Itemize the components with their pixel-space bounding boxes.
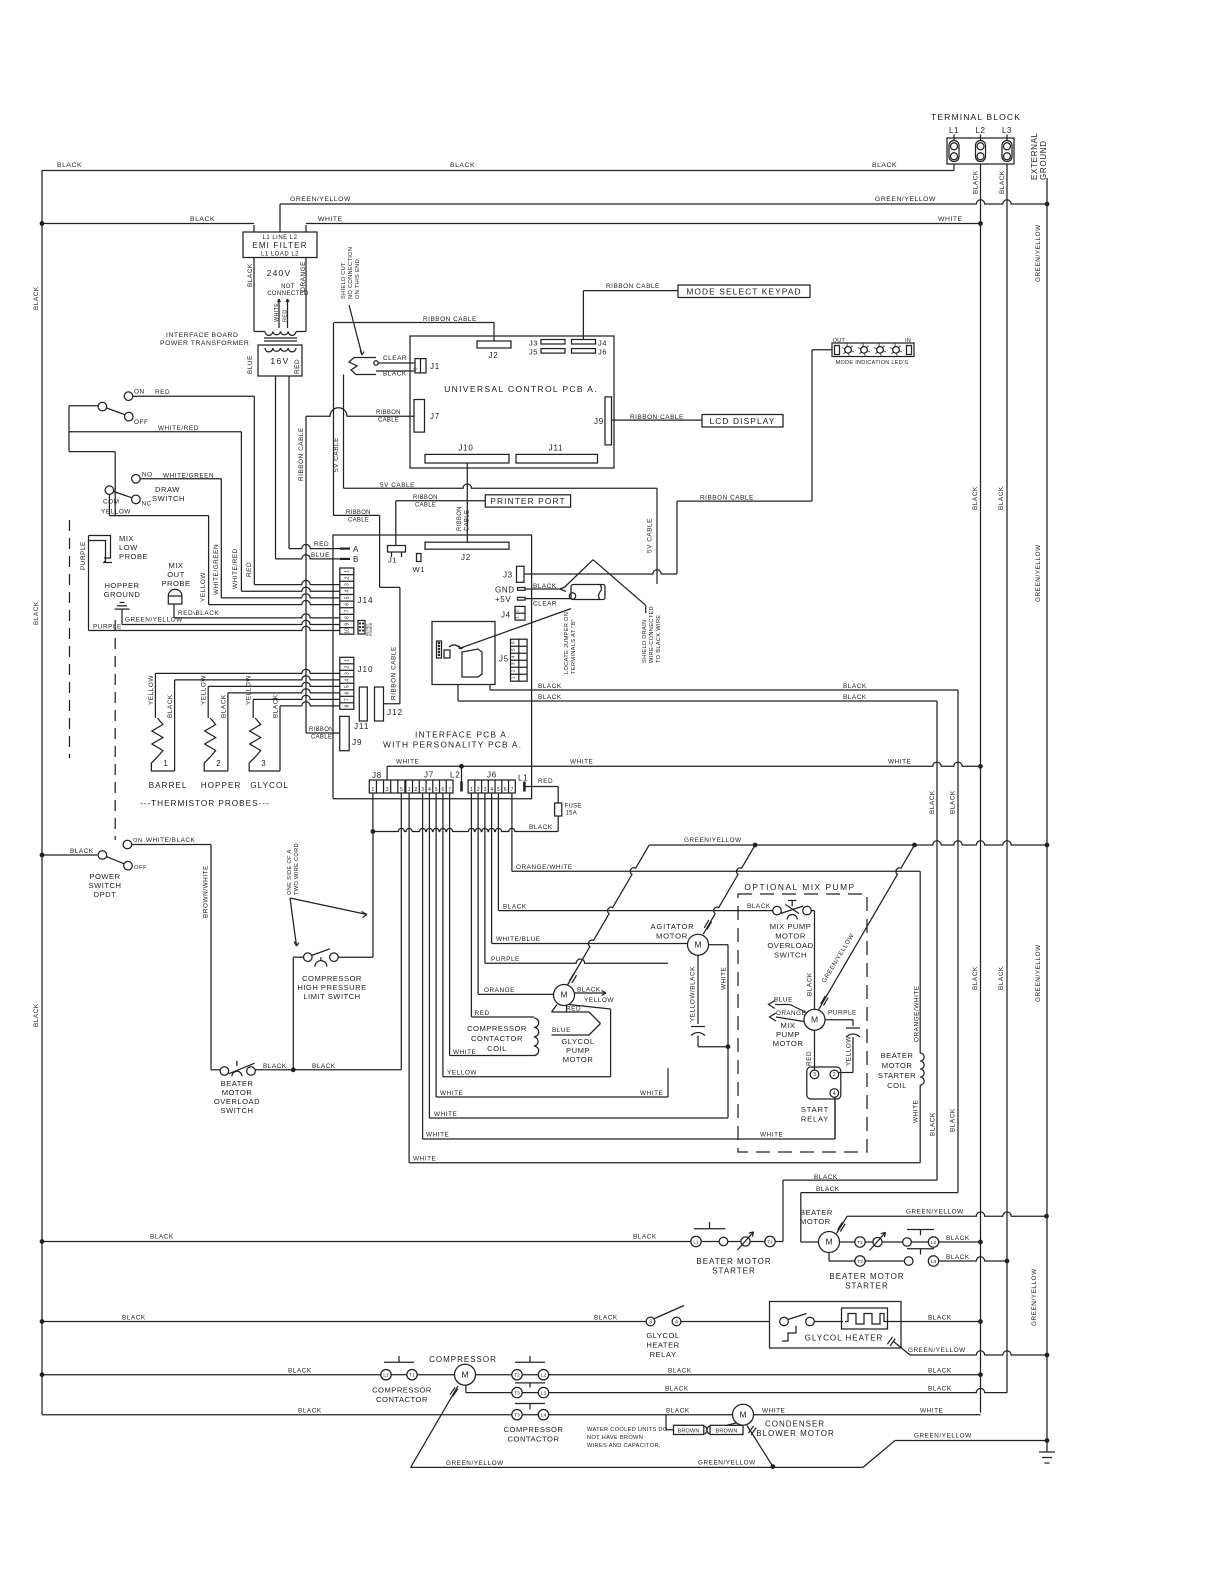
svg-text:GLYCOL: GLYCOL	[646, 1331, 679, 1340]
mode select keypad	[678, 285, 810, 298]
svg-text:PURPLE: PURPLE	[491, 956, 520, 963]
svg-text:2: 2	[511, 669, 516, 672]
svg-text:BLACK: BLACK	[594, 1315, 618, 1322]
svg-text:L1: L1	[518, 774, 529, 783]
jumper W1	[417, 554, 422, 562]
svg-text:J5: J5	[499, 655, 509, 664]
svg-text:RIBBON CABLE: RIBBON CABLE	[606, 283, 660, 290]
svg-text:T2: T2	[857, 1240, 863, 1246]
svg-text:5: 5	[344, 685, 350, 688]
svg-text:4: 4	[490, 787, 493, 793]
svg-text:MOTOR: MOTOR	[800, 1217, 831, 1226]
svg-text:INTERFACE BOARD: INTERFACE BOARD	[166, 332, 238, 339]
connector J9 universal	[605, 397, 612, 445]
svg-text:T3: T3	[514, 1390, 520, 1396]
svg-text:SWITCH: SWITCH	[89, 881, 122, 890]
svg-text:FUSE: FUSE	[565, 804, 582, 810]
svg-text:GREEN/YELLOW: GREEN/YELLOW	[1031, 1268, 1038, 1326]
svg-text:WHITE/BLACK: WHITE/BLACK	[146, 837, 196, 844]
svg-text:BLACK: BLACK	[929, 790, 936, 814]
svg-text:OPTIONAL MIX PUMP: OPTIONAL MIX PUMP	[744, 882, 855, 892]
svg-text:BLACK: BLACK	[450, 162, 475, 169]
svg-text:BLACK: BLACK	[288, 1367, 312, 1374]
svg-text:RIBBON CABLE: RIBBON CABLE	[298, 427, 305, 481]
svg-text:5: 5	[400, 787, 403, 793]
svg-text:CONNECTED: CONNECTED	[267, 291, 309, 297]
glycol pump motor	[554, 985, 575, 1006]
svg-text:GREEN/YELLOW: GREEN/YELLOW	[914, 1433, 972, 1440]
svg-text:3: 3	[261, 759, 266, 768]
svg-text:WHITE: WHITE	[434, 1111, 457, 1118]
svg-text:2: 2	[515, 609, 521, 612]
svg-text:J4: J4	[598, 339, 607, 348]
svg-text:GREEN/YELLOW: GREEN/YELLOW	[1035, 944, 1042, 1002]
svg-text:2: 2	[344, 576, 350, 579]
svg-text:J10: J10	[458, 444, 473, 453]
svg-text:4: 4	[428, 787, 431, 793]
svg-text:J7: J7	[424, 771, 434, 780]
svg-text:RELAY: RELAY	[650, 1350, 677, 1359]
LCD display	[702, 415, 783, 428]
svg-text:ORANGE: ORANGE	[776, 1010, 806, 1017]
svg-text:COM: COM	[103, 499, 120, 506]
svg-text:BLACK: BLACK	[998, 966, 1005, 990]
svg-text:WHITE/GREEN: WHITE/GREEN	[213, 544, 220, 595]
green/yellow diagonal to agitator motor	[703, 845, 755, 934]
svg-text:BLACK: BLACK	[928, 1315, 952, 1322]
svg-text:CONTACTOR: CONTACTOR	[376, 1395, 428, 1404]
svg-text:PURPLE: PURPLE	[828, 1010, 857, 1017]
svg-text:HOPPER: HOPPER	[201, 781, 242, 790]
svg-text:CLEAR: CLEAR	[533, 601, 557, 608]
svg-text:CABLE: CABLE	[348, 518, 369, 524]
svg-text:BLACK: BLACK	[190, 216, 215, 223]
svg-text:WHITE: WHITE	[640, 1090, 663, 1097]
svg-text:COMPRESSOR: COMPRESSOR	[372, 1386, 432, 1395]
svg-text:J3: J3	[503, 571, 513, 580]
svg-text:WIRES AND CAPACITOR.: WIRES AND CAPACITOR.	[587, 1443, 661, 1449]
svg-text:ORANGE/WHITE: ORANGE/WHITE	[516, 864, 573, 871]
fuse 15A	[555, 803, 562, 816]
svg-text:5: 5	[497, 787, 500, 793]
connector J10 interface	[340, 657, 354, 709]
svg-text:LOW: LOW	[119, 543, 138, 552]
svg-text:GREEN/YELLOW: GREEN/YELLOW	[684, 837, 742, 844]
shield tent	[565, 560, 593, 587]
svg-text:9: 9	[344, 623, 350, 626]
svg-text:T1: T1	[409, 1373, 415, 1379]
svg-text:INTERFACE PCB A.: INTERFACE PCB A.	[415, 730, 511, 740]
svg-text:WHITE: WHITE	[762, 1407, 785, 1414]
svg-text:GREEN/YELLOW: GREEN/YELLOW	[908, 1347, 966, 1354]
svg-text:J12: J12	[387, 708, 403, 717]
svg-text:MOTOR: MOTOR	[563, 1055, 594, 1064]
svg-text:WIRE-CONNECTED: WIRE-CONNECTED	[649, 606, 655, 663]
svg-text:MIX: MIX	[119, 534, 134, 543]
svg-text:J10: J10	[358, 665, 374, 674]
svg-text:NC: NC	[142, 501, 152, 508]
svg-text:BLACK: BLACK	[167, 694, 174, 718]
svg-text:AGITATOR: AGITATOR	[651, 922, 695, 931]
svg-text:GND: GND	[495, 586, 515, 595]
svg-text:STARTER: STARTER	[878, 1071, 916, 1080]
svg-text:PURPLE: PURPLE	[93, 624, 122, 631]
svg-text:RIBBON: RIBBON	[309, 727, 334, 733]
svg-text:RED: RED	[538, 778, 553, 785]
svg-text:M: M	[739, 1409, 746, 1419]
svg-text:BARREL: BARREL	[149, 781, 188, 790]
connector J9 interface	[340, 716, 350, 750]
svg-text:BLACK: BLACK	[747, 903, 771, 910]
svg-text:J11: J11	[354, 722, 369, 731]
svg-text:BLACK: BLACK	[872, 162, 897, 169]
svg-text:YELLOW: YELLOW	[447, 1070, 477, 1077]
connector J12 interface	[375, 687, 384, 721]
svg-text:M: M	[461, 1369, 468, 1379]
svg-text:WATER COOLED UNITS DO: WATER COOLED UNITS DO	[587, 1427, 668, 1433]
wire RED transformer secondary	[288, 376, 290, 549]
svg-text:5: 5	[344, 596, 350, 599]
compressor high pressure limit switch	[292, 957, 294, 1070]
svg-text:START: START	[801, 1105, 829, 1114]
svg-text:16V: 16V	[270, 356, 289, 366]
svg-text:+5V: +5V	[495, 595, 511, 604]
svg-text:GLYCOL: GLYCOL	[250, 781, 289, 790]
svg-text:GREEN/YELLOW: GREEN/YELLOW	[1035, 224, 1042, 282]
svg-text:J6: J6	[598, 348, 607, 357]
svg-text:SWITCH: SWITCH	[152, 494, 185, 503]
svg-text:WHITE: WHITE	[760, 1132, 783, 1139]
svg-text:YELLOW: YELLOW	[584, 997, 614, 1004]
svg-text:WHITE: WHITE	[413, 1156, 436, 1163]
svg-text:RED: RED	[294, 359, 301, 374]
svg-text:RED\BLACK: RED\BLACK	[178, 610, 219, 617]
svg-text:GREEN/YELLOW: GREEN/YELLOW	[698, 1459, 756, 1466]
svg-text:CABLE: CABLE	[415, 503, 436, 509]
svg-text:HOPPER: HOPPER	[104, 581, 139, 590]
svg-text:J9: J9	[594, 417, 604, 426]
svg-text:STARTER: STARTER	[845, 1282, 889, 1291]
svg-text:T1: T1	[767, 1239, 773, 1245]
svg-text:4: 4	[511, 655, 516, 658]
svg-text:GLYCOL: GLYCOL	[561, 1037, 594, 1046]
connector J11 interface	[359, 687, 367, 721]
svg-text:PURPLE: PURPLE	[80, 541, 87, 570]
svg-text:COMPRESSOR: COMPRESSOR	[302, 974, 362, 983]
svg-text:RIBBON CABLE: RIBBON CABLE	[700, 495, 754, 502]
svg-text:YELLOW: YELLOW	[101, 509, 131, 516]
svg-text:MOTOR: MOTOR	[656, 932, 688, 941]
svg-text:WHITE/RED: WHITE/RED	[232, 548, 239, 589]
svg-text:J14: J14	[358, 596, 374, 605]
svg-text:YELLOW: YELLOW	[201, 675, 208, 705]
svg-text:GREEN/YELLOW: GREEN/YELLOW	[906, 1209, 964, 1216]
svg-text:B: B	[353, 555, 358, 564]
svg-text:6: 6	[504, 787, 507, 793]
svg-text:6: 6	[344, 691, 350, 694]
svg-text:7: 7	[448, 787, 451, 793]
svg-text:1: 1	[371, 787, 374, 793]
svg-text:3: 3	[649, 1319, 652, 1325]
svg-text:10: 10	[344, 628, 350, 634]
svg-text:OFF: OFF	[134, 865, 147, 871]
svg-text:M: M	[825, 1237, 832, 1247]
svg-text:7: 7	[511, 787, 514, 793]
svg-text:BLACK: BLACK	[666, 1407, 690, 1414]
svg-text:BLACK: BLACK	[950, 1108, 957, 1132]
svg-text:BLACK: BLACK	[928, 1385, 952, 1392]
svg-text:RED: RED	[314, 541, 329, 548]
connector J4 universal	[572, 340, 596, 345]
svg-text:MODE INDICATION LED'S: MODE INDICATION LED'S	[836, 360, 909, 366]
svg-text:WHITE/BLUE: WHITE/BLUE	[496, 936, 541, 943]
svg-text:BEATER MOTOR: BEATER MOTOR	[829, 1272, 904, 1281]
svg-text:L1: L1	[383, 1373, 389, 1379]
svg-text:GREEN/YELLOW: GREEN/YELLOW	[446, 1460, 504, 1467]
svg-text:PROBE: PROBE	[161, 579, 190, 588]
wire WHITE start relay return	[834, 1097, 836, 1139]
svg-text:6: 6	[441, 787, 444, 793]
svg-text:J7: J7	[430, 412, 440, 421]
svg-text:BLUE: BLUE	[774, 997, 793, 1004]
svg-text:SHIELD DRAIN: SHIELD DRAIN	[642, 620, 648, 663]
svg-text:3: 3	[813, 1072, 816, 1078]
svg-text:RED: RED	[155, 389, 170, 396]
svg-text:15A: 15A	[566, 811, 578, 817]
svg-text:1: 1	[470, 787, 473, 793]
svg-text:LOCATE JUMPER ON: LOCATE JUMPER ON	[564, 612, 570, 674]
svg-text:ORANGE/WHITE: ORANGE/WHITE	[914, 985, 921, 1042]
svg-text:RED: RED	[246, 562, 253, 577]
svg-text:OVERLOAD: OVERLOAD	[214, 1097, 260, 1106]
svg-text:BLACK: BLACK	[843, 683, 867, 690]
svg-text:COMPRESSOR: COMPRESSOR	[429, 1355, 497, 1364]
svg-text:BLACK: BLACK	[946, 1235, 970, 1242]
svg-text:TERMINAL BLOCK: TERMINAL BLOCK	[931, 112, 1021, 122]
personality jumper box	[432, 622, 495, 685]
svg-text:T2: T2	[514, 1373, 520, 1379]
svg-text:BLACK: BLACK	[538, 694, 562, 701]
green/yellow diagonal beater motor	[837, 1216, 848, 1233]
shielded cable end at J1 universal	[349, 358, 376, 375]
svg-text:DRAW: DRAW	[155, 485, 180, 494]
wire RED J6p1 to compressor contactor coil	[470, 793, 472, 1017]
svg-text:BLACK: BLACK	[33, 286, 40, 310]
wire RED\BLACK mix out probe to J14 pin8	[173, 604, 175, 618]
svg-text:RIBBON: RIBBON	[376, 410, 401, 416]
svg-text:5: 5	[511, 648, 516, 651]
svg-text:RIBBON CABLE: RIBBON CABLE	[391, 646, 398, 700]
svg-text:COIL: COIL	[487, 1044, 507, 1053]
svg-text:J11: J11	[549, 444, 564, 453]
svg-text:J5: J5	[529, 348, 538, 357]
svg-text:YELLOW: YELLOW	[148, 675, 155, 705]
svg-text:BLACK: BLACK	[122, 1315, 146, 1322]
svg-text:BLACK: BLACK	[298, 1407, 322, 1414]
svg-text:J2: J2	[461, 553, 471, 562]
keyboard power aux connector	[358, 621, 365, 635]
svg-text:2: 2	[833, 1072, 836, 1078]
svg-text:RED: RED	[806, 1051, 813, 1066]
svg-text:WHITE: WHITE	[426, 1132, 449, 1139]
svg-text:BLACK: BLACK	[972, 966, 979, 990]
svg-text:BEATER MOTOR: BEATER MOTOR	[696, 1257, 771, 1266]
green/yellow glycol heater ground	[887, 1337, 892, 1344]
svg-text:J9: J9	[352, 738, 362, 747]
svg-text:L3: L3	[931, 1259, 937, 1265]
interface PCB A box	[333, 535, 532, 799]
svg-text:ON: ON	[133, 838, 143, 844]
wire BLUE transformer secondary	[275, 376, 277, 559]
svg-text:GROUND: GROUND	[104, 590, 141, 599]
svg-text:M: M	[560, 990, 567, 1000]
svg-text:4: 4	[344, 678, 350, 681]
svg-text:WHITE: WHITE	[721, 967, 728, 990]
svg-text:PRINTER PORT: PRINTER PORT	[490, 496, 565, 506]
glycol heater relay contacts	[646, 1317, 655, 1326]
svg-text:NO: NO	[142, 472, 153, 479]
svg-text:4: 4	[344, 590, 350, 593]
wire WHITE agitator motor return	[709, 944, 729, 946]
svg-text:BLACK: BLACK	[312, 1063, 336, 1070]
mix pump motor	[804, 1009, 825, 1030]
svg-text:J4: J4	[501, 611, 511, 620]
svg-text:WHITE: WHITE	[920, 1407, 943, 1414]
svg-text:M: M	[694, 939, 701, 949]
svg-text:WHITE: WHITE	[440, 1090, 463, 1097]
svg-text:7: 7	[344, 698, 350, 701]
compressor row2 T3 L3	[465, 1385, 467, 1392]
svg-text:3: 3	[386, 787, 389, 793]
svg-text:1: 1	[515, 616, 521, 619]
svg-text:BLACK: BLACK	[665, 1385, 689, 1392]
svg-text:NO CONNECTION: NO CONNECTION	[348, 247, 354, 299]
svg-text:LIMIT SWITCH: LIMIT SWITCH	[303, 992, 360, 1001]
svg-text:L1 LOAD L2: L1 LOAD L2	[261, 252, 299, 258]
beater motor starter 2 row1	[840, 1241, 855, 1243]
green/yellow condenser ground	[748, 1426, 753, 1433]
svg-text:BLACK: BLACK	[247, 263, 254, 287]
beater motor overload switch	[211, 1069, 220, 1071]
svg-text:SWITCH: SWITCH	[774, 951, 807, 960]
svg-text:EXTERNAL: EXTERNAL	[1030, 132, 1039, 180]
svg-text:BLACK: BLACK	[807, 972, 814, 996]
svg-text:5: 5	[435, 787, 438, 793]
svg-text:PUMP: PUMP	[776, 1030, 800, 1039]
svg-text:POWER: POWER	[369, 622, 373, 636]
svg-text:BLUE: BLUE	[311, 552, 330, 559]
svg-text:8: 8	[344, 704, 350, 707]
connector J6 universal	[572, 349, 596, 354]
svg-text:1: 1	[344, 570, 350, 573]
svg-text:BLACK: BLACK	[33, 1003, 40, 1027]
svg-text:MIX PUMP: MIX PUMP	[770, 922, 812, 931]
svg-text:BEATER: BEATER	[221, 1079, 254, 1088]
connector J1 interface	[388, 546, 406, 553]
svg-text:RIBBON: RIBBON	[457, 506, 463, 531]
svg-text:BLACK: BLACK	[928, 1367, 952, 1374]
green/yellow diagonal to mix pump motor	[819, 845, 915, 1009]
svg-text:CLEAR: CLEAR	[383, 355, 407, 362]
svg-text:RED: RED	[475, 1010, 490, 1017]
connector J2 interface	[425, 542, 509, 549]
svg-text:POWER: POWER	[89, 872, 120, 881]
svg-text:BEATER: BEATER	[800, 1208, 833, 1217]
svg-text:J3: J3	[529, 339, 538, 348]
svg-text:BLACK: BLACK	[998, 486, 1005, 510]
svg-text:ON THIS END.: ON THIS END.	[355, 257, 361, 299]
svg-text:L2: L2	[541, 1373, 547, 1379]
svg-text:BLACK: BLACK	[972, 486, 979, 510]
svg-text:1: 1	[408, 787, 411, 793]
svg-text:PUMP: PUMP	[566, 1046, 590, 1055]
svg-text:J8: J8	[372, 771, 382, 780]
svg-text:BLACK: BLACK	[70, 848, 94, 855]
svg-text:A: A	[353, 545, 359, 554]
svg-text:J2: J2	[488, 351, 498, 360]
svg-text:3: 3	[344, 583, 350, 586]
green/yellow diagonal to glycol pump motor	[568, 845, 650, 985]
svg-text:GREEN/YELLOW: GREEN/YELLOW	[1035, 544, 1042, 602]
svg-text:BLACK: BLACK	[816, 1186, 840, 1193]
svg-text:2: 2	[477, 787, 480, 793]
brown capacitor boxes	[674, 1425, 704, 1434]
svg-text:WITH PERSONALITY PCB A.: WITH PERSONALITY PCB A.	[383, 740, 522, 750]
svg-text:BLACK: BLACK	[33, 601, 40, 625]
svg-text:BLUE: BLUE	[247, 355, 254, 374]
svg-text:BLACK: BLACK	[538, 683, 562, 690]
svg-text:1: 1	[163, 759, 168, 768]
svg-text:DPDT: DPDT	[94, 890, 117, 899]
svg-text:SHIELD CUT.: SHIELD CUT.	[341, 261, 347, 299]
svg-text:J1: J1	[388, 556, 397, 565]
svg-text:OVERLOAD: OVERLOAD	[767, 941, 813, 950]
wire ORANGE J6p2 to glycol pump motor	[477, 793, 479, 994]
svg-text:BLACK: BLACK	[950, 790, 957, 814]
svg-text:2: 2	[415, 787, 418, 793]
svg-text:BROWN: BROWN	[677, 1428, 699, 1434]
svg-text:MOTOR: MOTOR	[222, 1088, 253, 1097]
wire to draw switch yellow bus	[69, 451, 115, 453]
shielded cable to GND/+5V	[525, 588, 560, 590]
svg-text:YELLOW: YELLOW	[246, 675, 253, 705]
condenser blower motor	[549, 1414, 733, 1416]
svg-text:BEATER: BEATER	[881, 1051, 914, 1060]
svg-text:GROUND: GROUND	[1039, 140, 1048, 180]
svg-text:SWITCH: SWITCH	[221, 1106, 254, 1115]
svg-text:3: 3	[421, 787, 424, 793]
svg-text:BLACK: BLACK	[503, 904, 527, 911]
svg-text:L2: L2	[931, 1240, 937, 1246]
svg-text:GLYCOL HEATER: GLYCOL HEATER	[805, 1334, 884, 1343]
svg-text:BLACK: BLACK	[633, 1234, 657, 1241]
svg-text:4: 4	[675, 1319, 678, 1325]
svg-text:MOTOR: MOTOR	[882, 1061, 913, 1070]
svg-text:TERMINALS AT "B": TERMINALS AT "B"	[571, 619, 577, 674]
svg-text:3: 3	[484, 787, 487, 793]
svg-text:WHITE: WHITE	[396, 759, 419, 766]
svg-text:BLACK: BLACK	[220, 694, 227, 718]
svg-text:RELAY: RELAY	[801, 1115, 829, 1124]
compressor contactor poles	[381, 1370, 391, 1380]
universal control PCB A	[410, 336, 614, 468]
beater motor starter coil	[920, 1053, 924, 1085]
svg-text:CABLE: CABLE	[378, 418, 399, 424]
svg-text:BLACK: BLACK	[150, 1234, 174, 1241]
svg-text:COMPRESSOR: COMPRESSOR	[504, 1425, 564, 1434]
svg-text:ORANGE: ORANGE	[484, 987, 515, 994]
printer port	[485, 495, 570, 507]
